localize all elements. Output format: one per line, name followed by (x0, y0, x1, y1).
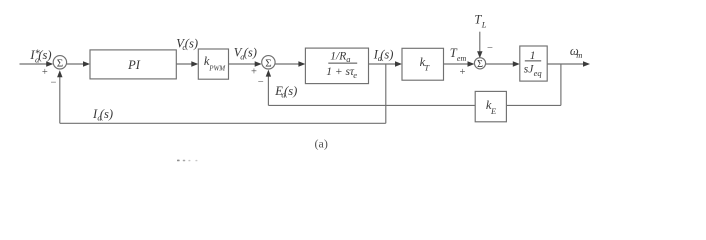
svg-text:(a): (a) (315, 137, 328, 151)
svg-text:eq: eq (534, 68, 543, 78)
block: k_T gain (402, 48, 444, 80)
node: label E_a(s) (274, 84, 297, 100)
wire: input line into first summing junction (20, 63, 48, 65)
svg-text:(s): (s) (185, 36, 198, 50)
svg-text:e: e (353, 70, 357, 80)
svg-text:1/R: 1/R (330, 51, 346, 63)
wire: k_E output to S2 riser (268, 104, 475, 106)
node: label V_a(s) (234, 46, 257, 62)
svg-text:+: + (460, 67, 466, 78)
svg-text:1: 1 (530, 50, 536, 62)
wire: S1 to PI block (67, 63, 84, 65)
op: summing junction S1 (53, 56, 66, 69)
wire: Ia feedback bottom line (60, 122, 386, 124)
op: summing junction S2 (262, 56, 275, 69)
wire: PI to k_PWM (176, 63, 192, 65)
wire: k_T to summing junction S3 (444, 63, 469, 65)
wire: S2 to armature block (275, 63, 299, 65)
node: input arrowhead (46, 61, 53, 66)
svg-text:−: − (258, 77, 264, 88)
node: faint page artifacts (177, 160, 197, 162)
svg-text:PWM: PWM (208, 64, 226, 72)
node: label omega_m (570, 44, 582, 60)
block: PI controller (90, 50, 176, 79)
node: label V_c(s) (176, 36, 198, 52)
block: k_E back-emf gain (475, 91, 506, 121)
svg-text:−: − (50, 77, 56, 88)
svg-text:a: a (346, 54, 350, 64)
svg-text:(s): (s) (100, 107, 113, 121)
svg-text:−: − (487, 43, 493, 54)
svg-text:Σ: Σ (265, 57, 271, 69)
block: inertia 1/(sJ_eq) (520, 46, 547, 81)
svg-text:1 + sτ: 1 + sτ (326, 66, 355, 78)
block: armature 1/Ra over 1+s tau_e (305, 48, 368, 84)
wire: output line with speed arrow (547, 63, 584, 65)
svg-text:Σ: Σ (477, 59, 483, 70)
block: k_PWM gain (198, 49, 228, 79)
svg-text:PI: PI (127, 58, 141, 72)
svg-text:em: em (457, 54, 467, 63)
svg-text:Σ: Σ (57, 57, 63, 69)
wire: Ia feedback branch vertical (385, 64, 387, 123)
wire: T_L down into S3 (479, 32, 481, 53)
wire: speed feedback branch down (560, 64, 562, 105)
wire: Ia riser up into S1 (59, 76, 61, 123)
node: input label I_a*(s) (29, 48, 51, 64)
wire: speed feedback horizontal to k_E (506, 104, 561, 106)
svg-text:E: E (490, 106, 497, 116)
svg-text:(s): (s) (38, 48, 51, 62)
wire: k_PWM to summing junction S2 (229, 63, 256, 65)
svg-text:m: m (576, 50, 582, 60)
svg-text:(s): (s) (244, 46, 257, 60)
node: label T_L (474, 13, 486, 30)
svg-text:L: L (481, 20, 487, 30)
node: label I_a(s) bottom (92, 107, 113, 122)
svg-text:(s): (s) (284, 84, 297, 98)
op: summing junction S3 (474, 58, 485, 69)
node: label T_em (450, 46, 467, 63)
wire: armature block to k_T (369, 63, 397, 65)
wire: E_a riser up into S2 (267, 76, 269, 106)
svg-text:+: + (42, 67, 48, 78)
svg-text:(s): (s) (380, 47, 393, 61)
svg-text:+: + (251, 66, 257, 77)
wire: S3 to inertia block (486, 63, 514, 65)
node: label I_a(s) mid (373, 47, 394, 63)
